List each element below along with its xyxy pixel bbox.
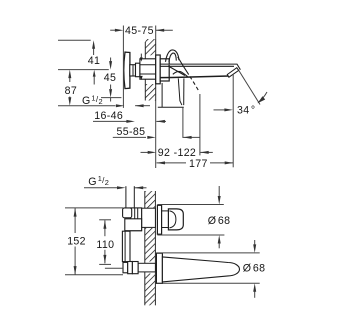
svg-text:34°: 34° xyxy=(237,105,255,117)
dia68 #2 refs xyxy=(156,252,259,254)
41 dim xyxy=(93,49,95,56)
152 refs xyxy=(65,207,123,209)
svg-text:41: 41 xyxy=(88,55,100,67)
svg-text:16-46: 16-46 xyxy=(94,110,123,122)
svg-text:Ø68: Ø68 xyxy=(243,263,266,275)
svg-text:55-85: 55-85 xyxy=(117,126,146,138)
extension lines xyxy=(122,26,124,108)
bracket bar xyxy=(122,231,130,261)
lever blade hanging down xyxy=(158,78,184,107)
bottom union rings xyxy=(123,262,155,274)
dim texts, bottom view xyxy=(67,174,265,274)
87 dim xyxy=(69,78,71,83)
small arrow marks on pipe xyxy=(140,54,143,81)
aerator at tip xyxy=(227,68,238,78)
supply pipe through wall xyxy=(140,59,156,79)
45 bottom ref xyxy=(101,97,121,99)
svg-text:Ø68: Ø68 xyxy=(208,215,231,227)
55-85 line xyxy=(113,136,146,138)
G1/2 nipple lines xyxy=(126,186,134,208)
neck cylinder xyxy=(130,65,136,76)
centre ref line xyxy=(58,69,109,71)
wall plate of handle (bottom view) xyxy=(157,205,161,234)
arrowheads, top view xyxy=(68,29,265,165)
lever swing dashed xyxy=(190,76,200,92)
spout body block xyxy=(160,59,169,81)
34 deg leader xyxy=(239,71,260,105)
svg-text:45-75: 45-75 xyxy=(125,25,154,37)
spout blade (bottom view) xyxy=(162,257,239,282)
87 / G1/2 dim line xyxy=(58,105,116,107)
wall plate of spout (bottom view) xyxy=(156,253,162,283)
arrowheads, bottom view xyxy=(74,186,257,291)
concealed body: union disc xyxy=(124,52,130,89)
110 dim line xyxy=(104,220,106,236)
svg-text:177: 177 xyxy=(189,158,208,170)
small dim 183-200 xyxy=(183,136,200,138)
41 ref line xyxy=(58,39,91,41)
svg-text:152: 152 xyxy=(67,235,86,247)
45-75 dim line xyxy=(110,29,117,31)
G1/2 dim xyxy=(84,187,117,189)
svg-text:110: 110 xyxy=(96,239,114,251)
spout (top view, side profile) xyxy=(160,64,240,78)
152 dim line xyxy=(74,208,76,233)
16-46 dim line xyxy=(93,120,127,122)
handle stem xyxy=(162,211,169,228)
svg-text:87: 87 xyxy=(65,85,77,97)
svg-text:45: 45 xyxy=(104,72,116,84)
lever handle (loop, top view) xyxy=(166,50,200,92)
wall plate (escutcheon, top view) xyxy=(156,55,161,84)
dim texts, top view xyxy=(65,25,256,170)
wall (hatched section, top view) xyxy=(145,39,155,101)
top union body xyxy=(123,208,156,231)
dia68 #1 refs xyxy=(157,204,223,206)
110 refs xyxy=(99,219,111,221)
handle knob (end-on) xyxy=(168,209,183,230)
177 dim xyxy=(157,162,187,164)
ring xyxy=(136,63,140,76)
92-122 dim xyxy=(141,151,149,153)
45 dim xyxy=(110,58,112,62)
lever swing line solid xyxy=(178,57,189,75)
wall (hatched section, bottom view) xyxy=(145,191,156,305)
